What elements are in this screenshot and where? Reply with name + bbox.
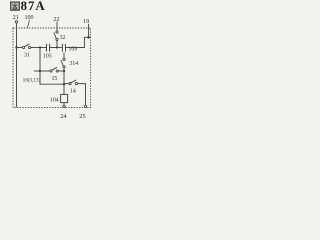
wire node D up to switch 314 <box>63 68 65 71</box>
wire switch15 to node D <box>58 70 64 72</box>
wire switch 314 top to cap109 bottom <box>63 52 65 58</box>
vertical wire node A down <box>40 48 64 85</box>
terminal 24 circle <box>63 105 65 107</box>
switch 15 <box>50 67 59 82</box>
node D junction dot <box>63 70 65 72</box>
wire switch14 to right corner down <box>78 84 86 106</box>
capacitor 105 <box>43 44 52 60</box>
svg-text:24: 24 <box>60 113 67 120</box>
wire cap109 right and up to node 19 <box>66 37 89 47</box>
svg-text:15: 15 <box>52 76 58 82</box>
node C junction dot <box>39 70 41 72</box>
switch 314 <box>61 58 78 68</box>
svg-text:25: 25 <box>79 113 85 120</box>
svg-text:19: 19 <box>83 18 89 25</box>
wire from terminal 21 down left side <box>16 23 18 107</box>
node E junction dot on rail B <box>63 83 65 85</box>
wire cap105 to node B <box>50 47 63 49</box>
wire resistor bottom to terminal 24 <box>63 103 65 106</box>
node junction at left rail <box>15 46 17 48</box>
svg-text:32: 32 <box>60 35 66 41</box>
wire from terminal 19 down <box>88 24 90 38</box>
dashed box 100 border <box>13 28 91 108</box>
wire rail B to switch 14 <box>64 83 69 85</box>
node B junction dot <box>56 46 58 48</box>
svg-text:21: 21 <box>13 14 19 21</box>
svg-text:87A: 87A <box>21 0 46 13</box>
svg-text:100: 100 <box>25 15 34 21</box>
stub wire into node C <box>34 70 40 72</box>
svg-text:31: 31 <box>24 53 30 59</box>
svg-text:105: 105 <box>43 54 52 60</box>
wire node E down to resistor 104 <box>63 84 65 94</box>
wire terminal 22 down <box>56 22 58 31</box>
wire switch31 to cap105 <box>31 47 47 49</box>
wire rail1 left <box>17 47 23 49</box>
svg-text:16(3,13): 16(3,13) <box>23 77 41 84</box>
wire switch32 to rail1 <box>56 41 58 48</box>
switch 14 <box>69 80 78 95</box>
terminal 25 circle <box>84 105 86 107</box>
title figure label 図87A <box>11 0 46 13</box>
resistor 104 box <box>61 94 68 102</box>
capacitor 109 <box>62 44 77 53</box>
leader squiggle to box <box>27 20 29 28</box>
switch 31 <box>23 44 31 59</box>
switch 32 <box>54 31 66 41</box>
node A junction dot <box>39 46 41 48</box>
svg-text:22: 22 <box>53 16 59 23</box>
wire node C to switch 15 <box>40 70 50 72</box>
svg-text:104: 104 <box>50 97 59 103</box>
node junction dot right <box>87 36 90 39</box>
svg-text:14: 14 <box>70 89 76 95</box>
wire node D down to rail B <box>63 71 65 84</box>
terminal 21 circle <box>15 21 17 23</box>
svg-text:314: 314 <box>70 61 79 67</box>
